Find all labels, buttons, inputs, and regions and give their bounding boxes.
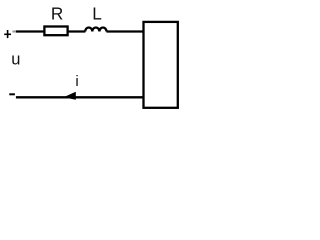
plus terminal of source u bbox=[4, 30, 11, 38]
svg-text:u: u bbox=[11, 51, 20, 69]
load box (two-terminal network) bbox=[144, 22, 178, 108]
svg-text:i: i bbox=[75, 73, 78, 90]
wire between resistor and inductor bbox=[68, 30, 86, 32]
resistor R1 body bbox=[44, 27, 67, 36]
minus terminal of source u bbox=[9, 93, 15, 95]
inductor L1 coil bbox=[85, 28, 106, 32]
svg-text:R: R bbox=[51, 4, 63, 24]
wire inductor to load box bbox=[106, 30, 143, 32]
current arrow head (i, pointing left) bbox=[64, 92, 76, 100]
bottom return wire bbox=[16, 96, 144, 98]
svg-text:L: L bbox=[92, 4, 102, 24]
wire top-left bbox=[12, 31, 16, 33]
